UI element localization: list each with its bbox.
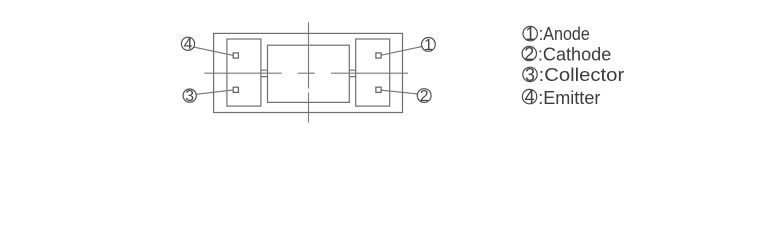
svg-text::Cathode: :Cathode (538, 45, 611, 65)
svg-text:4: 4 (184, 36, 193, 53)
svg-text:2: 2 (420, 88, 429, 105)
svg-text::Anode: :Anode (539, 24, 590, 44)
svg-text::Collector: :Collector (539, 65, 625, 85)
svg-text:3: 3 (185, 88, 194, 105)
svg-text:1: 1 (525, 24, 535, 44)
svg-text:4: 4 (525, 87, 535, 107)
svg-text:3: 3 (525, 65, 535, 85)
svg-text:2: 2 (524, 44, 534, 64)
svg-text:1: 1 (424, 37, 433, 54)
svg-text::Emitter: :Emitter (538, 88, 600, 108)
